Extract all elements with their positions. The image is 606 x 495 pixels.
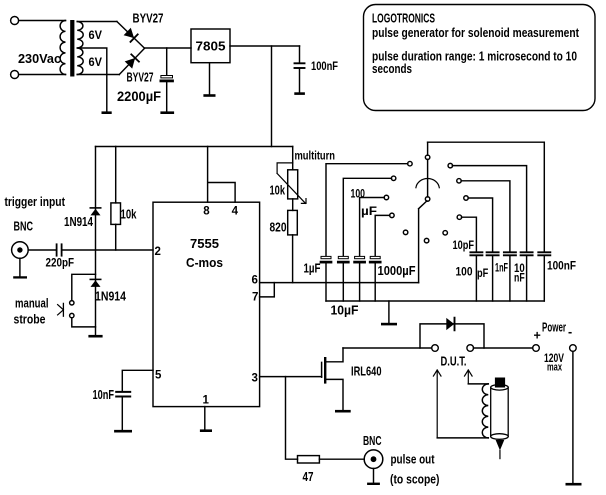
arrow DUT right xyxy=(465,370,473,384)
ground clamp xyxy=(88,335,102,338)
wire primary bottom xyxy=(19,74,66,76)
svg-text:trigger input: trigger input xyxy=(5,195,66,209)
svg-text:(to scope): (to scope) xyxy=(390,473,440,487)
wire 47 to BNC out xyxy=(319,458,364,460)
svg-text:µF: µF xyxy=(361,204,377,218)
resistor 820 xyxy=(288,210,298,235)
diode D4 1N914 xyxy=(90,278,100,280)
svg-text:7: 7 xyxy=(252,292,258,304)
switch contact R1 xyxy=(448,163,453,168)
svg-text:BYV27: BYV27 xyxy=(127,69,154,84)
wire left vertical (clamp net) xyxy=(95,147,97,335)
wire drain to DUT xyxy=(343,347,432,349)
title box xyxy=(364,5,596,111)
wire contact L4 to 1000uF xyxy=(375,215,390,256)
DUT terminal right xyxy=(467,345,474,352)
wire power minus to ground xyxy=(572,351,574,483)
svg-text:10k: 10k xyxy=(121,208,137,222)
wire contact R1 to 10nF xyxy=(452,166,526,252)
svg-text:10pF: 10pF xyxy=(453,238,475,252)
svg-text:Power: Power xyxy=(542,321,566,335)
BNC pulse out connector xyxy=(364,450,383,469)
wire cap bank ground rail xyxy=(326,300,544,302)
svg-text:-: - xyxy=(568,325,572,339)
rotary switch S1 pole xyxy=(427,142,429,155)
AC input terminal bottom xyxy=(11,71,19,79)
svg-text:C-mos: C-mos xyxy=(186,256,223,270)
MOSFET Q1 IRL640 xyxy=(321,362,323,377)
svg-text:100nF: 100nF xyxy=(547,259,576,273)
svg-text:10k: 10k xyxy=(270,184,286,198)
ground power xyxy=(566,483,582,486)
svg-text:1nF: 1nF xyxy=(495,261,508,275)
capacitor 100nF 5V rail xyxy=(299,46,301,93)
capacitor 1000uF xyxy=(370,256,380,258)
capacitor 220pF xyxy=(56,244,58,255)
wire pot feed xyxy=(292,147,294,170)
switch contact L2 xyxy=(391,176,396,181)
wire 5V rail xyxy=(96,146,293,148)
transformer T1 secondary winding xyxy=(77,22,83,75)
transformer T1 core xyxy=(70,20,74,77)
Power terminal minus xyxy=(570,345,577,352)
wire 5V feed down xyxy=(271,46,273,147)
wire secondary top xyxy=(77,21,117,23)
wire BNC to cap xyxy=(28,249,56,251)
wire contact L3 to 100uF xyxy=(360,198,385,257)
switch contact L4 xyxy=(390,213,395,218)
wire 820 to timing node xyxy=(292,235,294,283)
ground 2200uF xyxy=(160,111,174,114)
ground pin 1 xyxy=(204,407,206,430)
wire diode D2 diagonal xyxy=(119,49,144,75)
svg-text:1N914: 1N914 xyxy=(95,290,126,304)
AC input terminal top xyxy=(11,17,19,25)
svg-text:10µF: 10µF xyxy=(331,304,359,318)
svg-text:pulse generator for solenoid m: pulse generator for solenoid measurement xyxy=(372,25,580,40)
rotary switch wiper arm xyxy=(419,201,427,283)
ground BNC out xyxy=(373,469,375,483)
potentiometer 10k multiturn xyxy=(288,170,298,199)
svg-text:strobe: strobe xyxy=(14,313,46,327)
wire trigger to pin 2 xyxy=(63,249,154,251)
capacitor 100uF xyxy=(355,256,365,258)
wire contact R2 to 1nF xyxy=(461,181,510,252)
svg-text:max: max xyxy=(547,362,563,374)
wire pin 5 xyxy=(122,370,153,391)
svg-text:820: 820 xyxy=(270,221,287,235)
capacitor 100pF xyxy=(487,251,499,253)
wire solenoid top xyxy=(468,383,488,385)
wire 7805 output xyxy=(230,45,300,47)
wire diode D1 diagonal xyxy=(117,22,144,49)
solenoid plunger body xyxy=(491,387,509,436)
ground center tap xyxy=(102,111,112,114)
switch contact R5 xyxy=(443,231,448,236)
ground cap bank xyxy=(388,301,390,323)
wire pot to 820 xyxy=(292,199,294,211)
capacitor 100nF switch xyxy=(538,251,550,253)
solenoid plunger tip xyxy=(496,440,505,451)
svg-text:7555: 7555 xyxy=(190,236,219,251)
svg-text:2200µF: 2200µF xyxy=(117,88,161,104)
capacitor 1uF xyxy=(321,256,331,258)
capacitor 1nF xyxy=(504,251,516,253)
capacitor 2200uF xyxy=(166,48,168,111)
svg-text:8: 8 xyxy=(203,206,210,218)
capacitor 10pF xyxy=(470,251,482,253)
regulator U2 7805 xyxy=(191,29,230,63)
switch contact L3 xyxy=(384,195,389,200)
switch contact R3 xyxy=(464,196,469,201)
switch contact L5 xyxy=(403,230,408,235)
svg-text:10nF: 10nF xyxy=(93,388,115,402)
wire secondary bottom xyxy=(77,74,119,76)
svg-text:1: 1 xyxy=(203,395,210,407)
wire contact L1 to 1uF xyxy=(326,164,408,257)
arrow DUT left xyxy=(433,370,441,438)
svg-text:100: 100 xyxy=(351,187,366,201)
svg-text:5: 5 xyxy=(155,370,162,382)
svg-text:pulse out: pulse out xyxy=(391,453,436,467)
wire contact L2 to 10uF xyxy=(343,178,391,256)
solenoid plunger cap xyxy=(495,378,505,388)
transformer T1 primary winding xyxy=(60,21,65,75)
wire DUT to power xyxy=(474,347,533,349)
diode D5 flyback xyxy=(446,318,454,330)
capacitor 10nF switch xyxy=(521,251,533,253)
svg-text:2: 2 xyxy=(155,246,161,258)
ground 10nF xyxy=(114,430,132,433)
svg-text:100: 100 xyxy=(456,265,473,279)
wire strobe top xyxy=(72,274,96,300)
svg-text:IRL640: IRL640 xyxy=(351,365,382,379)
svg-text:6V: 6V xyxy=(89,55,103,69)
svg-text:nF: nF xyxy=(514,271,525,285)
BNC trigger input connector xyxy=(12,242,29,259)
svg-text:1µF: 1µF xyxy=(304,262,321,276)
wire pin 3 xyxy=(260,376,322,378)
ground 100nF xyxy=(294,92,305,95)
svg-text:220pF: 220pF xyxy=(46,256,75,270)
ground BNC input xyxy=(19,258,21,276)
ground MOSFET source xyxy=(335,410,351,413)
svg-text:LOGOTRONICS: LOGOTRONICS xyxy=(372,11,435,26)
svg-text:100nF: 100nF xyxy=(311,59,338,73)
svg-text:pF: pF xyxy=(477,266,488,280)
svg-text:230Vac: 230Vac xyxy=(18,51,61,66)
diode D1 BYV27 xyxy=(124,28,135,38)
DUT terminal left xyxy=(432,345,439,352)
switch contact bottom xyxy=(424,238,429,243)
Power terminal plus xyxy=(533,345,540,352)
ground 7805 xyxy=(209,63,211,94)
svg-text:multiturn: multiturn xyxy=(295,149,336,163)
svg-text:7805: 7805 xyxy=(196,39,226,54)
wire pin 6 xyxy=(260,282,419,284)
diode D3 1N914 xyxy=(90,207,100,209)
svg-text:BNC: BNC xyxy=(363,434,382,448)
push button manual strobe xyxy=(70,301,74,305)
svg-text:1N914: 1N914 xyxy=(64,215,93,229)
wire primary top xyxy=(19,20,66,22)
wire contact R3 to 100pF xyxy=(468,198,493,251)
switch contact R2 xyxy=(457,179,462,184)
svg-text:manual: manual xyxy=(15,297,49,311)
svg-text:3: 3 xyxy=(252,373,258,385)
svg-text:6: 6 xyxy=(252,275,258,287)
wire pulse out branch xyxy=(286,377,298,460)
switch contact R4 xyxy=(457,215,462,220)
svg-text:6V: 6V xyxy=(89,28,103,42)
wire rectifier output xyxy=(144,47,191,49)
svg-text:BYV27: BYV27 xyxy=(133,11,164,26)
svg-text:+: + xyxy=(534,329,541,343)
capacitor 10nF pin5 xyxy=(116,391,130,393)
svg-text:seconds: seconds xyxy=(372,61,412,76)
wire flyback diode branch xyxy=(420,324,484,348)
capacitor 10uF xyxy=(338,256,348,258)
wire switch top to 100nF xyxy=(428,142,545,251)
wire pins 8 and 4 xyxy=(208,147,236,203)
diode D2 BYV27 xyxy=(125,58,135,69)
resistor 10k pull-up xyxy=(115,147,117,251)
switch contact L1 xyxy=(408,161,413,166)
svg-text:1000µF: 1000µF xyxy=(378,264,416,278)
wire center tap xyxy=(77,48,107,111)
svg-text:BNC: BNC xyxy=(14,220,34,234)
resistor 47 xyxy=(298,456,320,463)
wire pin 7 xyxy=(260,283,275,297)
solenoid coil xyxy=(482,384,488,438)
svg-text:D.U.T.: D.U.T. xyxy=(441,355,467,369)
svg-text:4: 4 xyxy=(232,206,239,218)
wire strobe bottom xyxy=(72,318,96,327)
IC U1 7555 xyxy=(153,202,260,406)
svg-text:47: 47 xyxy=(303,470,314,484)
wire contact R4 to 10pF xyxy=(462,217,477,251)
wire solenoid bottom xyxy=(437,437,488,439)
